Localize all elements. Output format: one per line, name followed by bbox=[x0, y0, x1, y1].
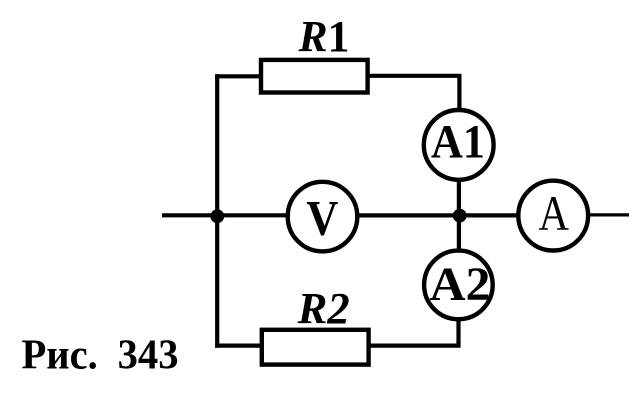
svg-text:A1: A1 bbox=[431, 116, 485, 169]
ammeter A2 bbox=[424, 251, 493, 320]
voltmeter V bbox=[288, 182, 358, 252]
wire V to center junction bbox=[358, 213, 460, 217]
wire input lead bbox=[162, 213, 217, 217]
svg-text:V: V bbox=[306, 189, 338, 245]
svg-text:R2: R2 bbox=[297, 284, 350, 333]
wire center junction to A bbox=[460, 213, 517, 217]
svg-text:Рис. 343: Рис. 343 bbox=[22, 332, 179, 378]
svg-text:R1: R1 bbox=[298, 12, 350, 61]
wire R1 to A1 bbox=[368, 76, 460, 112]
svg-text:A: A bbox=[538, 185, 569, 241]
resistor R1 bbox=[261, 60, 368, 93]
wire left junction to V bbox=[217, 213, 288, 217]
node center junction bbox=[453, 209, 467, 223]
wire output lead bbox=[590, 213, 630, 216]
wire left vertical bbox=[215, 74, 219, 348]
wire A1 to center junction bbox=[457, 180, 461, 218]
wire bottom branch left bbox=[215, 344, 263, 348]
wire top branch left bbox=[215, 74, 262, 78]
node left junction bbox=[210, 209, 224, 223]
ammeter A1 bbox=[424, 110, 494, 180]
ammeter A bbox=[518, 181, 588, 251]
wire A2 to R2 bbox=[368, 319, 459, 346]
svg-text:A2: A2 bbox=[430, 258, 491, 311]
resistor R2 bbox=[262, 330, 369, 365]
wire center junction to A2 bbox=[457, 216, 461, 251]
